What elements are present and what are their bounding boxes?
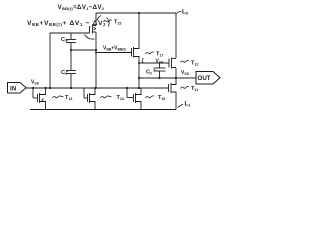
svg-text:L0: L0	[182, 9, 189, 16]
svg-text:L1: L1	[185, 101, 192, 108]
svg-text:VBB+VBB(t)+ ΔV1 − ΔV2: VBB+VBB(t)+ ΔV1 − ΔV2	[27, 20, 106, 27]
svg-text:OUT: OUT	[198, 75, 211, 82]
svg-text:IN: IN	[10, 85, 17, 92]
svg-text:VBB(t)=ΔV1−ΔV2: VBB(t)=ΔV1−ΔV2	[58, 4, 105, 11]
